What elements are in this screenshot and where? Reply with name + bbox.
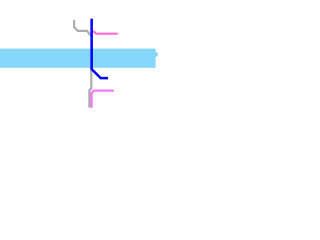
blue line (vertical with bend to right) [92, 19, 108, 79]
violet line (bottom corner) [92, 91, 113, 107]
river end cap bump [153, 52, 158, 57]
gray branch line upper (from top into junction) [74, 20, 91, 36]
gray line lower segment (continues below river) [89, 66, 91, 107]
pink line (top right) [92, 32, 117, 34]
river band [0, 49, 156, 68]
